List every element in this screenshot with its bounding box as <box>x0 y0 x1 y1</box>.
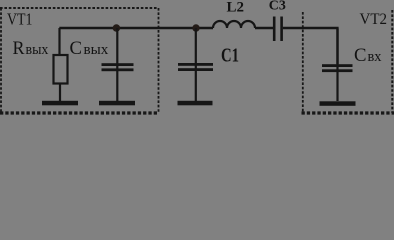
svg-text:C1: C1 <box>221 46 239 67</box>
transistor VT1 dashed box <box>0 8 159 113</box>
wire: resistor to ground <box>59 84 61 102</box>
capacitor C1 (shunt) <box>178 63 213 71</box>
svg-text:R: R <box>13 39 26 59</box>
resistor Rвых <box>54 55 68 84</box>
svg-text:L2: L2 <box>227 0 245 15</box>
wire: stem from bus down to resistor <box>58 28 60 55</box>
capacitor C3 (series) <box>274 17 281 42</box>
svg-text:вх: вх <box>368 49 382 65</box>
svg-text:С: С <box>70 39 83 59</box>
svg-text:VT1: VT1 <box>7 10 33 29</box>
inductor L2 <box>213 21 255 28</box>
wire: top bus from Rвых corner to L2 <box>59 27 213 29</box>
wire: stem down to Свх <box>336 29 338 101</box>
wire: stem down to C1 <box>195 28 197 101</box>
transistor VT2 dashed box <box>302 10 394 113</box>
ground bar under C1 <box>178 101 213 106</box>
wire: stem down to Свых <box>116 28 118 101</box>
capacitor Свых (shunt) <box>102 63 134 71</box>
node: junction dot on bus at C1 <box>192 24 199 31</box>
ground bar under Свых <box>99 101 135 106</box>
wire: L2 to C3 <box>255 27 273 29</box>
svg-text:вых: вых <box>84 42 109 58</box>
node: junction dot on bus at Свых <box>113 24 121 32</box>
svg-text:VT2: VT2 <box>360 11 388 28</box>
svg-text:С: С <box>354 45 367 66</box>
svg-text:вых: вых <box>26 42 49 58</box>
capacitor Свх (shunt) <box>322 64 353 72</box>
ground bar under Rвых <box>42 101 78 106</box>
wire: C3 to VT2 input corner <box>283 28 339 64</box>
ground bar under Свх <box>320 101 356 106</box>
svg-text:C3: C3 <box>269 0 286 13</box>
